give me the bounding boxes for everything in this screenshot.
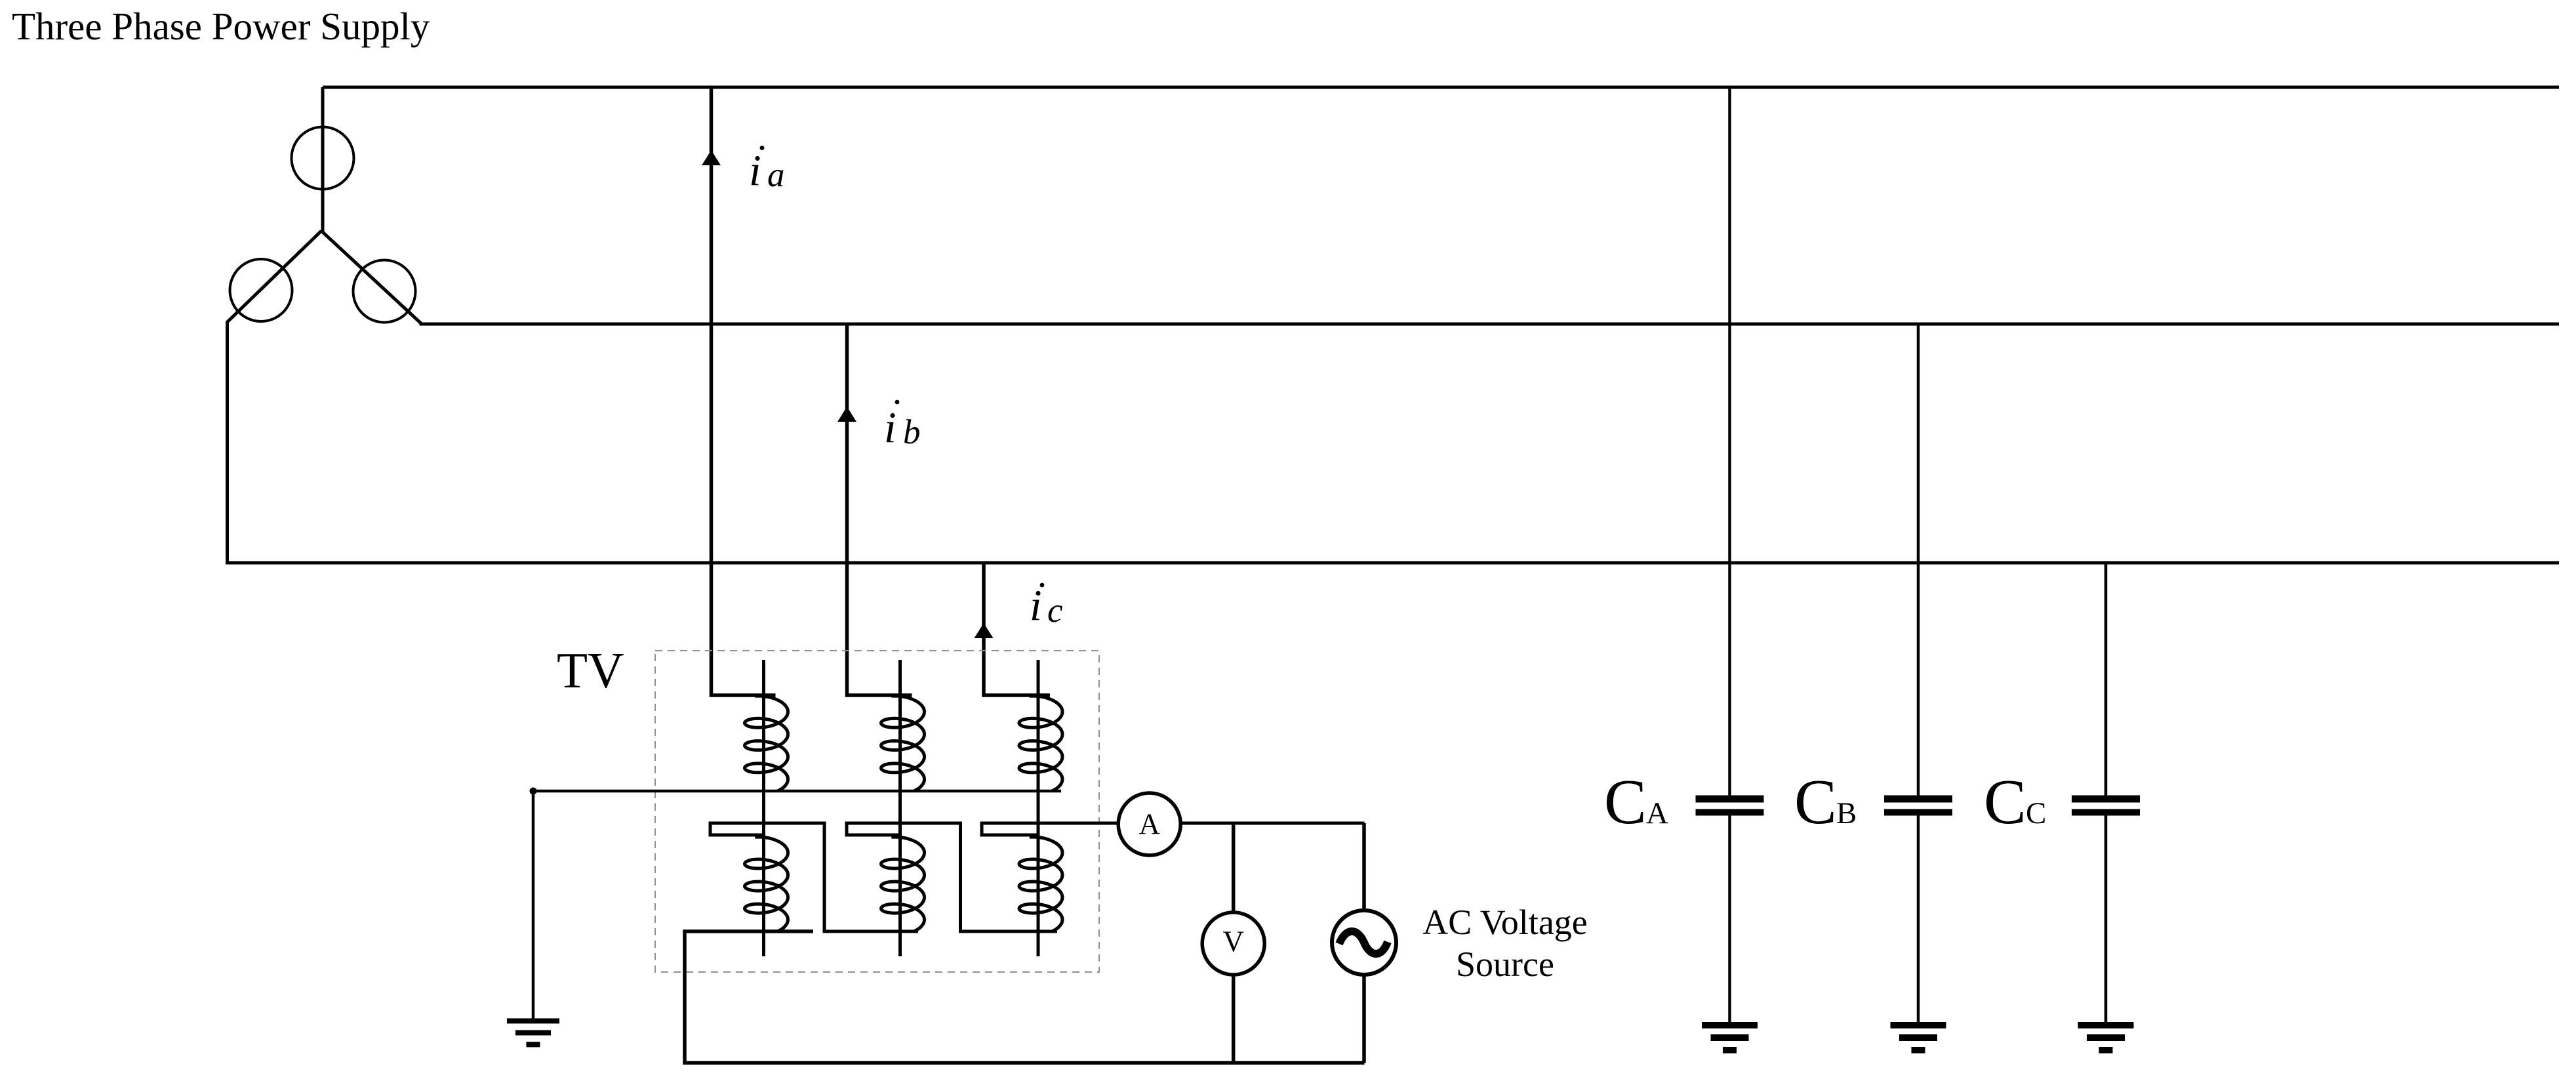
wire: phase-b tap to transformer TV2 bbox=[847, 324, 912, 695]
capacitor CB plates bbox=[1884, 796, 1952, 803]
wire: AC source to bottom rail bbox=[1362, 974, 1366, 1063]
wire: TV3 secondary top link to ammeter bbox=[982, 823, 1117, 835]
svg-text:A: A bbox=[1646, 796, 1668, 830]
svg-text:C: C bbox=[1984, 767, 2026, 837]
wire: capacitor CC top lead bbox=[2104, 563, 2108, 796]
three-phase source phase B circle bbox=[230, 259, 292, 321]
three-phase source phase A circle bbox=[292, 127, 354, 190]
transformer TV2 primary winding bbox=[881, 696, 925, 791]
wire: capacitor CA bottom lead bbox=[1728, 815, 1731, 1024]
transformer TV3 core line bbox=[1037, 660, 1040, 956]
ground symbol (neutral) bbox=[507, 1019, 559, 1024]
AC source sine symbol bbox=[1339, 931, 1388, 954]
transformer TV1 primary winding bbox=[745, 696, 788, 791]
transformer TV1 core line bbox=[762, 660, 765, 956]
wire: voltmeter branch down bbox=[1232, 823, 1236, 913]
wire: capacitor CB top lead bbox=[1917, 324, 1920, 796]
wire: voltmeter to bottom rail bbox=[1232, 974, 1236, 1063]
svg-text:Source: Source bbox=[1456, 945, 1554, 984]
ground symbol (CC) bbox=[2078, 1022, 2134, 1028]
wire: phase-c tap to transformer TV3 bbox=[984, 563, 1050, 695]
wire: phase-a tap to transformer TV1 bbox=[712, 87, 776, 695]
three-phase source phase C circle bbox=[353, 260, 416, 323]
wire: capacitor CB bottom lead bbox=[1917, 815, 1920, 1024]
wire: neutral down lead to ground bbox=[532, 791, 535, 1021]
svg-text:c: c bbox=[1047, 592, 1063, 630]
capacitor CC plates bbox=[2072, 796, 2140, 803]
svg-text:AC Voltage: AC Voltage bbox=[1422, 903, 1588, 942]
svg-text:b: b bbox=[903, 413, 921, 451]
wire: capacitor CA top lead bbox=[1728, 87, 1731, 796]
label ib bbox=[884, 400, 921, 452]
ground symbol (CB) bbox=[1891, 1022, 1946, 1028]
ground symbol (CA) bbox=[1702, 1022, 1758, 1028]
transformer TV3 secondary winding bbox=[1019, 837, 1062, 931]
svg-text:C: C bbox=[2026, 796, 2046, 830]
wire: bus line B (middle) with corner from source bbox=[321, 231, 2559, 324]
arrow: current ib direction bbox=[837, 407, 856, 422]
svg-text:B: B bbox=[1836, 796, 1857, 830]
wire: ammeter to source branch bbox=[1182, 822, 1364, 825]
transformer TV3 primary winding bbox=[1019, 696, 1062, 791]
svg-text:i: i bbox=[749, 146, 761, 195]
ammeter A circle bbox=[1118, 793, 1180, 855]
svg-text:a: a bbox=[767, 156, 785, 194]
voltmeter V circle bbox=[1202, 912, 1264, 975]
wire: TV2 secondary top link bbox=[847, 823, 1057, 931]
label AC Voltage Source bbox=[1422, 903, 1588, 984]
AC voltage source circle bbox=[1332, 910, 1396, 975]
arrow: current ia direction bbox=[702, 150, 721, 165]
svg-text:C: C bbox=[1794, 767, 1837, 837]
wire: primary neutral line bbox=[533, 790, 1061, 793]
wire: phase A riser through source circle bbox=[321, 87, 325, 232]
node: neutral junction dot bbox=[530, 788, 537, 795]
svg-text:i: i bbox=[884, 403, 896, 452]
label CA bbox=[1604, 767, 1668, 837]
svg-text:TV: TV bbox=[557, 642, 624, 699]
voltage transformer group box TV (dashed) bbox=[655, 651, 1099, 972]
transformer TV2 core line bbox=[898, 660, 902, 956]
wire: bus line C (bottom) with corner from source bbox=[228, 231, 2560, 563]
wire: AC source branch down bbox=[1362, 823, 1366, 911]
svg-text:i: i bbox=[1030, 581, 1042, 630]
wire: TV1 secondary top link bbox=[710, 823, 918, 931]
capacitor CA plates bbox=[1696, 796, 1764, 803]
wire: TV1 secondary bottom lead to bottom rail bbox=[685, 931, 1365, 1063]
svg-text:C: C bbox=[1604, 767, 1647, 837]
label ic bbox=[1030, 581, 1063, 630]
wire: capacitor CC bottom lead bbox=[2104, 815, 2108, 1024]
label CB bbox=[1794, 767, 1857, 837]
wire: bus line A (top) bbox=[323, 86, 2559, 89]
svg-text:V: V bbox=[1222, 925, 1244, 958]
transformer TV1 secondary winding bbox=[745, 837, 788, 931]
svg-text:A: A bbox=[1138, 808, 1160, 841]
transformer TV2 secondary winding bbox=[881, 837, 925, 931]
label ia bbox=[749, 146, 785, 195]
arrow: current ic direction bbox=[975, 623, 994, 638]
svg-text:Three Phase Power Supply: Three Phase Power Supply bbox=[12, 5, 430, 48]
label CC bbox=[1984, 767, 2046, 837]
